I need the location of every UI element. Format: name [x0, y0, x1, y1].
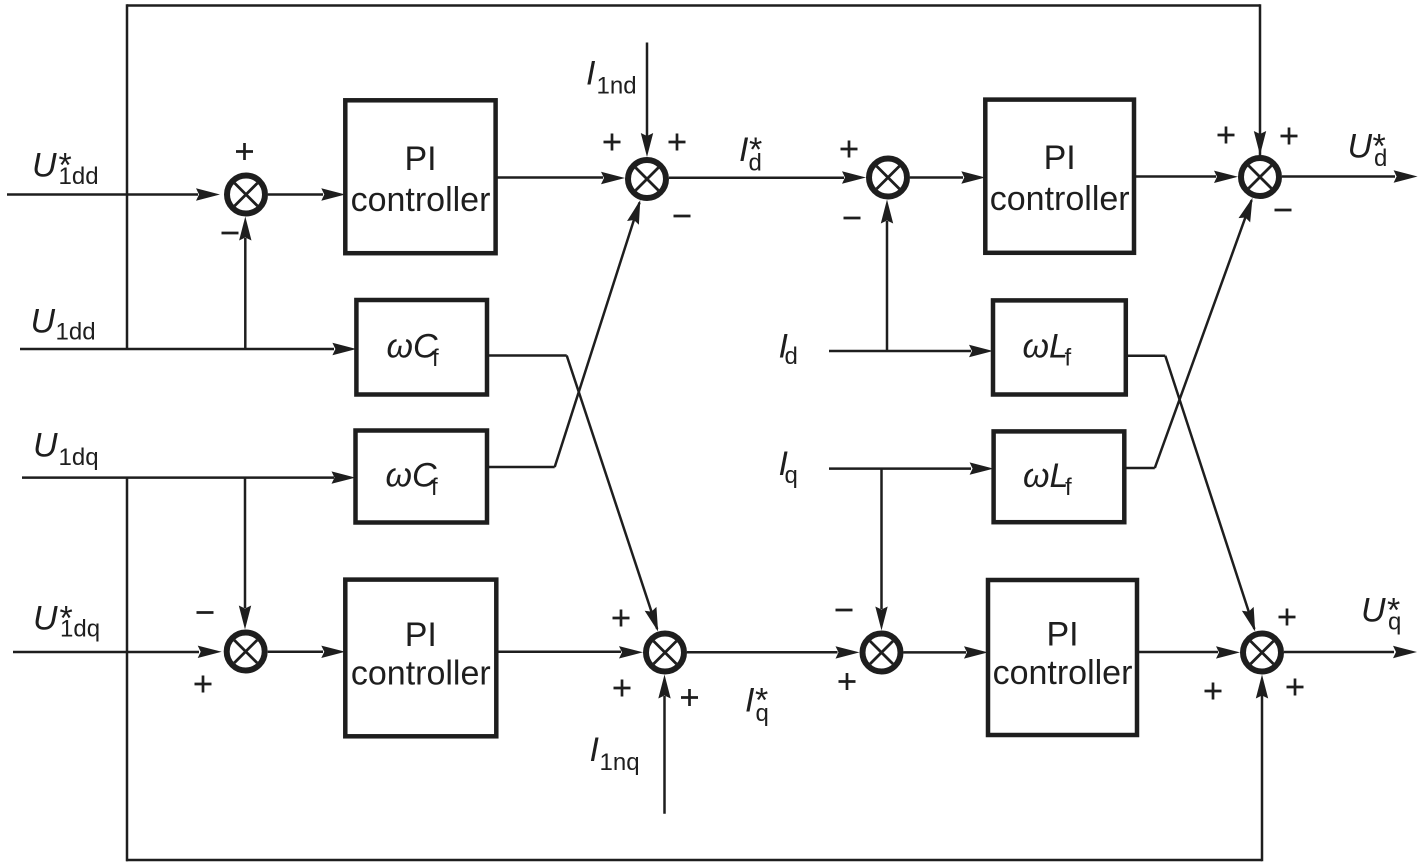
node I1nd (disturbance current d label) [586, 55, 637, 100]
summing junction S3 (Id* - Id) [869, 159, 907, 197]
wire: U1dq* input line [13, 651, 199, 654]
wire: PI controller 2 output to sum S4 [1134, 175, 1216, 178]
plus sign at S2 left (PI1 output) [604, 134, 621, 151]
wire: wCf 1 output horizontal [487, 354, 567, 357]
arrowhead into sum S2 from top [641, 133, 653, 157]
wire: branch U1dq down to sum S1q (feedback) [244, 478, 247, 608]
wire: wLf 1 output horizontal [1126, 355, 1166, 358]
wire: wLf 2 output horizontal [1124, 467, 1155, 470]
plus sign at S4q lower-right (feedforward) [1287, 679, 1304, 696]
minus sign at S2 (wCf cross term) [674, 215, 691, 218]
svg-text:PI: PI [404, 140, 436, 178]
minus sign at S1 (U1dd feedback) [222, 232, 239, 235]
wire: left border upper segment (U1dd feedforward) [126, 4, 129, 349]
node I1nq (disturbance current q label) [590, 731, 640, 776]
PI controller 4 (current loop q-axis) [988, 580, 1137, 735]
node Id* (reference current d label) [739, 131, 762, 177]
node U1dq* (reference voltage q input label) [33, 600, 100, 643]
wire: I1nd input vertical into sum S2 [646, 43, 649, 137]
wire: PI controller 4 output to sum S4q [1137, 651, 1218, 654]
svg-text:f: f [431, 474, 438, 501]
wire: left border lower segment (U1dq feedforward) [126, 478, 129, 862]
svg-text:1dq: 1dq [59, 444, 99, 471]
minus sign at S3 (Id feedback) [844, 217, 861, 220]
arrowhead into wCf block 2 [332, 471, 356, 483]
wire: wLf 1 diagonal down to sum S4q [1165, 356, 1254, 629]
summing junction S4 (Ud* generation) [1241, 158, 1279, 196]
wire: feedforward bottom border (U1dq to Uq* sum) [126, 859, 1262, 862]
svg-text:U: U [33, 427, 58, 465]
arrowhead into sum S1q [198, 646, 222, 658]
arrowhead into Ud* sum from top [1254, 131, 1266, 155]
wLf block 1 (inductor decoupling gain, d-axis) [993, 300, 1126, 394]
node Id (measured current d label) [779, 328, 798, 371]
svg-text:d: d [785, 343, 798, 370]
wire: sum S1 to PI controller 1 [268, 193, 323, 196]
plus sign at S2q lower-right (I1nq input) [681, 689, 698, 706]
arrowhead into sum S3q [836, 646, 860, 658]
wire: feedforward top border (U1dd to Ud* sum) [127, 4, 1260, 7]
arrowhead into sum S2q [619, 646, 643, 658]
svg-text:PI: PI [405, 616, 437, 654]
arrowhead into wLf block 2 [970, 462, 994, 474]
svg-text:PI: PI [1044, 139, 1076, 177]
wire: branch Iq down to sum S3q (feedback) [880, 469, 883, 609]
wire: U1dd input line to wCf 1 [20, 348, 334, 351]
wire: sum S3 to PI controller 2 [910, 176, 963, 179]
svg-text:controller: controller [351, 655, 491, 693]
wCf block 2 (capacitor decoupling gain, q-axis) [356, 431, 488, 523]
arrowhead into PI controller 3 [321, 646, 345, 658]
plus sign at S4 left (PI2 output) [1218, 127, 1235, 144]
svg-text:U: U [33, 600, 58, 638]
arrowhead into sum S3 [842, 171, 866, 183]
arrowhead into sum S2 (diagonal) [627, 198, 646, 225]
svg-text:1nd: 1nd [597, 73, 637, 100]
plus sign at S2 right (I1nd input) [669, 134, 686, 151]
wire: sum S2 to sum S3 (Id* signal) [669, 177, 844, 180]
node U1dq (measured voltage q label) [33, 427, 99, 472]
wire: Ud* output line [1282, 175, 1395, 178]
svg-text:controller: controller [993, 654, 1133, 692]
arrowhead into sum S2 [601, 172, 625, 184]
svg-text:U: U [32, 147, 57, 185]
wire: sum S2q to sum S3q (Iq* signal) [687, 651, 838, 654]
summing junction S2q (Iq* generation) [646, 634, 684, 672]
wire: right vertical up to Uq* sum junction [1261, 681, 1264, 861]
wire: sum S3q to PI controller 4 [904, 651, 967, 654]
summing junction S4q (Uq* generation) [1243, 634, 1281, 672]
arrowhead into Uq* sum from bottom [1256, 675, 1268, 699]
plus sign at S3 (Id* input) [841, 141, 858, 158]
plus sign at S2q lower-left (PI3 output) [614, 680, 631, 697]
plus sign at S4q lower-left (PI4 output) [1205, 683, 1222, 700]
arrowhead into sum S1q from above [239, 606, 251, 630]
minus sign at S3q (Iq feedback) [836, 609, 853, 612]
svg-text:d: d [749, 150, 762, 177]
svg-text:ωC: ωC [386, 457, 437, 495]
node U1dd (measured voltage d label) [31, 303, 96, 346]
arrowhead of Uq* output [1393, 646, 1417, 658]
wire: PI controller 3 output to sum S2q [496, 651, 621, 654]
arrowhead into sum S4 [1214, 171, 1238, 183]
arrowhead into sum S4 (diagonal) [1239, 196, 1259, 223]
arrowhead into sum S4q (diagonal) [1242, 607, 1261, 634]
plus sign at S3q (Iq* input) [839, 673, 856, 690]
arrowhead into sum S2q from bottom [658, 675, 670, 699]
arrowhead into PI controller 2 [961, 171, 985, 183]
plus sign at S1q (U1dq* input) [195, 676, 212, 693]
svg-text:q: q [1388, 609, 1401, 636]
arrowhead into wCf block 1 [332, 343, 356, 355]
wire: U1dq input line to wCf 2 [22, 476, 334, 479]
plus sign at S2q upper (wCf cross term) [613, 610, 630, 627]
node Uq* (output voltage reference q label) [1361, 592, 1401, 636]
svg-text:1dq: 1dq [60, 616, 100, 643]
svg-text:ωC: ωC [387, 328, 438, 366]
wire: Uq* output line [1284, 651, 1394, 654]
arrowhead into sum S1 from below [239, 217, 251, 241]
svg-text:f: f [432, 345, 439, 372]
svg-text:ωL: ωL [1023, 457, 1068, 495]
arrowhead into sum S3q from above [875, 607, 887, 631]
arrowhead into wLf block 1 [969, 345, 993, 357]
plus sign at S4q upper (wLf cross term) [1279, 609, 1296, 626]
wire: wCf 2 output horizontal [487, 466, 555, 469]
plus sign at S1 (U1dd* input) [236, 143, 253, 160]
wire: right vertical down to Ud* sum junction [1259, 4, 1262, 162]
svg-text:q: q [756, 700, 769, 727]
plus sign at S4 right (feedforward) [1281, 128, 1298, 145]
PI controller 2 (current loop d-axis) [985, 100, 1134, 253]
node U1dd* (reference voltage d input label) [32, 147, 99, 191]
arrowhead of Ud* output [1394, 170, 1418, 182]
svg-text:ωL: ωL [1023, 327, 1068, 365]
wire: I1nq input vertical into sum S2q [663, 696, 666, 814]
summing junction S1 (U1dd* - U1dd) [227, 176, 265, 214]
wire: PI controller 1 output to sum S2 [496, 176, 603, 179]
wire: wCf 2 diagonal up to sum S2 [555, 203, 640, 468]
arrowhead into sum S2q (diagonal) [645, 607, 664, 634]
wire: U1dd* input line [7, 193, 198, 196]
PI controller 1 (voltage loop d-axis) [345, 100, 495, 253]
minus sign at S4 (wLf cross term) [1275, 209, 1292, 212]
svg-text:I: I [745, 682, 755, 720]
svg-text:controller: controller [990, 180, 1130, 218]
svg-text:I: I [590, 731, 600, 769]
wire: wLf 2 diagonal up to sum S4 [1155, 200, 1252, 468]
svg-text:I: I [586, 55, 596, 93]
svg-text:q: q [785, 462, 798, 489]
svg-text:1nq: 1nq [600, 749, 640, 776]
arrowhead into sum S3 from below [881, 200, 893, 224]
wire: Id input line to wLf 1 [829, 350, 971, 353]
summing junction S2 (Id* generation) [628, 160, 666, 198]
svg-text:PI: PI [1046, 616, 1078, 654]
wLf block 2 (inductor decoupling gain, q-axis) [994, 431, 1125, 522]
svg-text:1dd: 1dd [56, 319, 96, 346]
node Iq* (reference current q label) [745, 682, 769, 728]
PI controller 3 (voltage loop q-axis) [345, 580, 496, 737]
wCf block 1 (capacitor decoupling gain, d-axis) [356, 300, 487, 395]
arrowhead into PI controller 1 [321, 188, 345, 200]
svg-text:f: f [1065, 474, 1072, 501]
wire: sum S1q to PI controller 3 [268, 651, 323, 654]
svg-text:U: U [31, 303, 56, 341]
svg-text:f: f [1065, 345, 1072, 372]
arrowhead into sum S1 [196, 188, 220, 200]
node Ud* (output voltage reference d label) [1348, 128, 1388, 173]
summing junction S1q (U1dq* - U1dq) [227, 633, 265, 671]
wire: branch Id up to sum S3 (feedback) [886, 221, 889, 351]
svg-text:U: U [1348, 128, 1373, 166]
wire: branch U1dd up to sum S1 (feedback) [244, 238, 247, 349]
wire: Iq input line to wLf 2 [829, 467, 971, 470]
svg-text:I: I [739, 131, 749, 169]
minus sign at S1q (U1dq feedback) [197, 611, 214, 614]
wire: wCf 1 diagonal down to sum S2q [567, 356, 658, 630]
node Iq (measured current q label) [779, 445, 798, 489]
svg-text:controller: controller [351, 181, 491, 219]
svg-text:U: U [1361, 592, 1386, 630]
svg-text:1dd: 1dd [59, 163, 99, 190]
summing junction S3q (Iq* - Iq) [863, 634, 901, 672]
arrowhead into sum S4q [1216, 646, 1240, 658]
svg-text:d: d [1374, 145, 1387, 172]
arrowhead into PI controller 4 [964, 646, 988, 658]
